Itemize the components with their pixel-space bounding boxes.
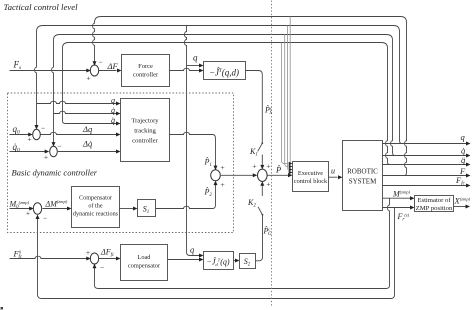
wire: central junction output P-hat to executive block: [268, 174, 289, 176]
junction: Ffc0 summing: [90, 253, 98, 264]
svg-text:q0: q0: [13, 124, 21, 136]
arrow: q into Jd box: [199, 254, 204, 258]
arrow: bundle 4 into executive block: [289, 171, 293, 174]
svg-text:control block: control block: [294, 178, 328, 185]
arrow: Fs into force junction: [86, 69, 91, 73]
svg-text:ZMP position: ZMP position: [416, 205, 453, 212]
arrow: JP out into central junction: [253, 173, 258, 177]
svg-text:controller: controller: [132, 138, 158, 145]
arrow: load output into Jd box: [199, 258, 204, 262]
svg-text:u: u: [331, 167, 335, 176]
wire: robotic output q to right edge: [383, 143, 467, 145]
wire: Ffc0 input line with hop over x=37 vertical: [10, 256, 88, 258]
arrow: deltaFfc into load compensator: [116, 257, 121, 261]
arrow: deltaM into compensator: [67, 207, 72, 211]
wire: J-transpose(q,d) output down to switch K1: [246, 71, 263, 144]
svg-text:P̂2: P̂2: [204, 186, 213, 198]
svg-text:Fr(z): Fr(z): [397, 212, 410, 223]
junction: M0 zmp summing: [33, 203, 41, 215]
wire: Fs input line: [10, 70, 88, 72]
wire: robotic output F to right edge: [383, 175, 467, 177]
block: ROBOTIC SYSTEM: [343, 141, 383, 211]
svg-text:ΔM(zmp): ΔM(zmp): [45, 199, 68, 209]
svg-text:−: −: [98, 58, 102, 67]
svg-text:Basic dynamic controller: Basic dynamic controller: [12, 168, 98, 178]
wire: Jd box output to S2: [234, 260, 236, 262]
svg-text:ΔF: ΔF: [107, 61, 119, 71]
boxes group: [72, 55, 454, 281]
block: Force controller: [122, 55, 170, 87]
block: S1: [138, 200, 156, 217]
wire: q0dot input line: [10, 151, 46, 153]
svg-text:q̇: q̇: [461, 146, 466, 156]
arrow: M0 into M0 junction: [29, 207, 34, 211]
arrow: P-hat into executive block: [288, 173, 293, 177]
wire: executive feedback bundle vertical 4 from F line: [289, 17, 292, 173]
svg-text:+: +: [27, 135, 31, 144]
arrow: qdot feedback into J2 top: [52, 142, 56, 147]
wire: Fr z branch down and left to M0 junction: [38, 208, 395, 299]
arrow: K2 into central junction bottom: [260, 181, 264, 186]
switch K2 blade: [258, 207, 262, 215]
svg-text:Fs: Fs: [13, 60, 22, 72]
wire: q0 input line: [10, 134, 29, 136]
svg-text:q: q: [190, 245, 195, 255]
svg-text:P̂cG: P̂cG: [263, 225, 272, 237]
svg-text:+: +: [266, 180, 270, 189]
block: Executive control block: [293, 162, 329, 192]
svg-text:−ĴT(q,d): −ĴT(q,d): [209, 68, 239, 78]
block: Load compensator: [121, 245, 168, 281]
wire: robotic output Fr z to estimator: [383, 207, 411, 209]
svg-text:+: +: [220, 163, 224, 172]
arrow: qddot into trajectory box: [116, 122, 121, 126]
arrowheads: [28, 61, 470, 268]
arrow: qdot into trajectory box: [116, 112, 121, 116]
junction: J1 (q0 - q): [33, 129, 41, 139]
arrow: delta-q into trajectory box: [116, 133, 121, 137]
svg-text:P̂1: P̂1: [204, 156, 212, 168]
svg-text:+: +: [86, 248, 90, 257]
dotted box: basic dynamic controller: [8, 93, 234, 233]
node: K1 upper contact: [261, 142, 263, 144]
wire: qdot branch to trajectory controller with hop at x=62: [54, 111, 117, 113]
svg-text:−: −: [41, 124, 45, 133]
wire: robotic output Ffc to right edge: [383, 185, 467, 187]
wire: JP junction output to central junction: [221, 174, 253, 176]
svg-text:Δq̇: Δq̇: [82, 139, 93, 149]
arrow: qddot output right edge: [466, 163, 471, 167]
svg-text:K2: K2: [247, 198, 256, 209]
contact dots for switches: [261, 142, 263, 215]
wire: feedback qdot top loop (y=34): [52, 35, 396, 156]
svg-text:Compensator: Compensator: [79, 195, 112, 202]
svg-text:Δq: Δq: [82, 124, 93, 134]
wire: compensator output to S1: [120, 208, 134, 210]
svg-text:+: +: [252, 162, 256, 171]
arrow: deltaF into force controller: [117, 69, 122, 73]
arrow: Ffc0 into Ffc junction: [86, 257, 91, 261]
junction: central (P sum with K1,K2): [258, 169, 268, 181]
wire: feedback q top loop (y=25): [35, 26, 403, 144]
box captions: [73, 63, 453, 270]
arrow: bundle 1 into executive block: [289, 162, 293, 165]
arrow: Fr z into estimator: [410, 206, 415, 210]
arrow: bundle 3 into executive block: [289, 168, 293, 171]
arrow: u into robotic system: [338, 175, 343, 179]
svg-text:−: −: [100, 263, 104, 272]
wire: executive feedback bundle vertical 1 from qddot line: [282, 43, 289, 164]
wire: feedback F top loop (y=16, x95 to x406 down to F output): [93, 17, 407, 176]
arrow: Jd output into S2: [235, 259, 240, 263]
svg-text:+: +: [26, 209, 30, 218]
wire: executive feedback bundle vertical 3 from q line: [287, 26, 290, 170]
wire: K2 to central junction bottom: [261, 185, 263, 196]
wire: feedback qddot top loop (y=42) with branch into trajectory controller: [63, 43, 391, 165]
svg-text:X(zmp): X(zmp): [454, 196, 471, 206]
wire: M0 junction to compensator: [43, 208, 68, 210]
svg-text:q̇: q̇: [111, 106, 115, 115]
arrow: Fr feedback into M0 junction bottom: [36, 215, 40, 220]
arrow: bundle 2 into executive block: [289, 165, 293, 168]
junction: JP (P1+P2): [211, 170, 221, 181]
svg-text:q̇0: q̇0: [13, 142, 21, 154]
svg-text:Trajectory: Trajectory: [131, 118, 159, 125]
svg-text:K1: K1: [249, 147, 258, 158]
block: Compensator of the dynamic reactions: [72, 187, 120, 228]
svg-text:−: −: [43, 214, 47, 223]
wire: deltaF from force junction to force controller: [99, 70, 117, 72]
arrow: F output right edge: [466, 174, 471, 178]
arrow: K1 into central junction top: [260, 165, 264, 170]
svg-text:of the: of the: [88, 203, 103, 210]
arrow: trajectory output into JP top: [214, 166, 218, 171]
svg-text:q: q: [111, 96, 115, 105]
wire: delta-qdot from junction J2 to trajectory controller: [58, 151, 117, 153]
block: -J^T(q,d): [204, 62, 246, 80]
svg-text:−: −: [57, 142, 61, 151]
arrow: q feedback into J1 top: [35, 125, 39, 130]
svg-text:SYSTEM: SYSTEM: [349, 178, 377, 186]
wire: u from executive block to robotic system: [329, 176, 338, 178]
block: Estimator of ZMP position: [415, 196, 454, 212]
switch K1 blade: [258, 143, 263, 151]
svg-text:Executive: Executive: [298, 170, 323, 177]
junction: force summing (Fs - F): [90, 65, 98, 76]
wire: load compensator output to Jd box: [168, 259, 200, 261]
arrow: q0dot into J2: [45, 150, 50, 154]
block: S2: [240, 254, 256, 269]
wire: S2 output up to switch K2: [256, 215, 263, 261]
svg-text:Tactical control level: Tactical control level: [4, 2, 79, 12]
svg-text:P̂: P̂: [275, 164, 281, 174]
wire: robotic output qdot to right edge: [383, 155, 467, 157]
svg-text:q̈: q̈: [111, 116, 115, 125]
wire: force controller output to J-transpose box, hop at x=186: [170, 68, 200, 70]
arrow: q into J-transpose box: [199, 64, 204, 68]
arrow: force output into J-transpose box: [199, 69, 204, 73]
wire: M zmp branch down and left to Ffc junction, jog at Fr crossing: [95, 198, 390, 288]
wire: executive feedback bundle vertical 2 from qdot line: [285, 35, 288, 167]
plus/minus signs: [26, 58, 271, 273]
arrow: q into trajectory box: [116, 102, 121, 106]
arrow: X zmp output: [466, 205, 471, 209]
svg-text:tracking: tracking: [134, 128, 156, 135]
svg-text:q̈: q̈: [461, 155, 466, 165]
svg-text:q: q: [461, 132, 466, 142]
svg-text:M(zmp): M(zmp): [392, 190, 411, 199]
arrow: M feedback into Ffc junction bottom: [93, 264, 97, 269]
arrow: delta-qdot into trajectory box: [116, 150, 121, 154]
svg-text:q: q: [193, 53, 198, 63]
dotted separator line x=271: [271, 1, 273, 307]
svg-text:+: +: [266, 162, 270, 171]
arrow: S1 output into JP bottom: [214, 181, 218, 186]
wire: robotic output qddot to right edge: [383, 164, 467, 166]
arrow: compensator out into S1: [133, 207, 138, 211]
svg-text:+: +: [86, 74, 90, 83]
wire: S1 output to JP junction bottom, hop at x=186: [156, 184, 216, 209]
wire: M0 zmp input line: [10, 208, 30, 210]
block: -Jd^T(q): [204, 252, 234, 270]
svg-text:Force: Force: [138, 63, 153, 70]
svg-text:P̂cS: P̂cS: [264, 104, 272, 116]
junction: J2 (q0dot - qdot): [50, 146, 58, 156]
wire: q feedback centre vertical x=186 down to Jd box: [184, 26, 199, 256]
svg-text:Ffc: Ffc: [455, 175, 466, 187]
wire: q branch into J-transpose box: [187, 65, 200, 67]
arrow: Ffc output right edge: [466, 184, 471, 188]
arrow: qdot output right edge: [466, 154, 471, 158]
node: K2 lower contact: [262, 214, 264, 216]
svg-text:compensator: compensator: [128, 263, 161, 270]
summing junctions: [33, 65, 267, 264]
svg-text:ROBOTIC: ROBOTIC: [347, 168, 378, 176]
svg-text:+: +: [220, 180, 224, 189]
svg-text:controller: controller: [133, 72, 159, 79]
svg-text:+: +: [44, 153, 48, 162]
wire: delta-q from junction J1 to trajectory controller, hop at x=53: [41, 132, 117, 134]
wire: Ffc junction to load compensator: [99, 258, 116, 260]
svg-text:F0fc: F0fc: [13, 249, 23, 261]
wire: trajectory controller output to JP junction top, hop at x=186: [170, 132, 216, 166]
svg-text:dynamic reactions: dynamic reactions: [73, 211, 119, 218]
svg-text:Load: Load: [138, 254, 152, 261]
arrow: M zmp into estimator: [410, 196, 415, 200]
wire: K1 to central junction top: [261, 155, 263, 165]
arrow: F feedback into force junction top: [93, 61, 97, 66]
wire: robotic output M zmp to estimator: [383, 197, 411, 199]
svg-text:Estimator of: Estimator of: [417, 197, 451, 204]
arrow: q output right edge: [466, 142, 471, 146]
wire: q branch to trajectory controller with hops at x=53,62: [37, 101, 117, 103]
mark: scan tick bottom-left: [1, 307, 4, 310]
wire: estimator output X zmp: [454, 206, 466, 208]
svg-text:ΔFfc: ΔFfc: [100, 248, 115, 259]
block: Trajectory tracking controller: [121, 99, 170, 162]
arrow: q0 into J1: [28, 133, 33, 137]
